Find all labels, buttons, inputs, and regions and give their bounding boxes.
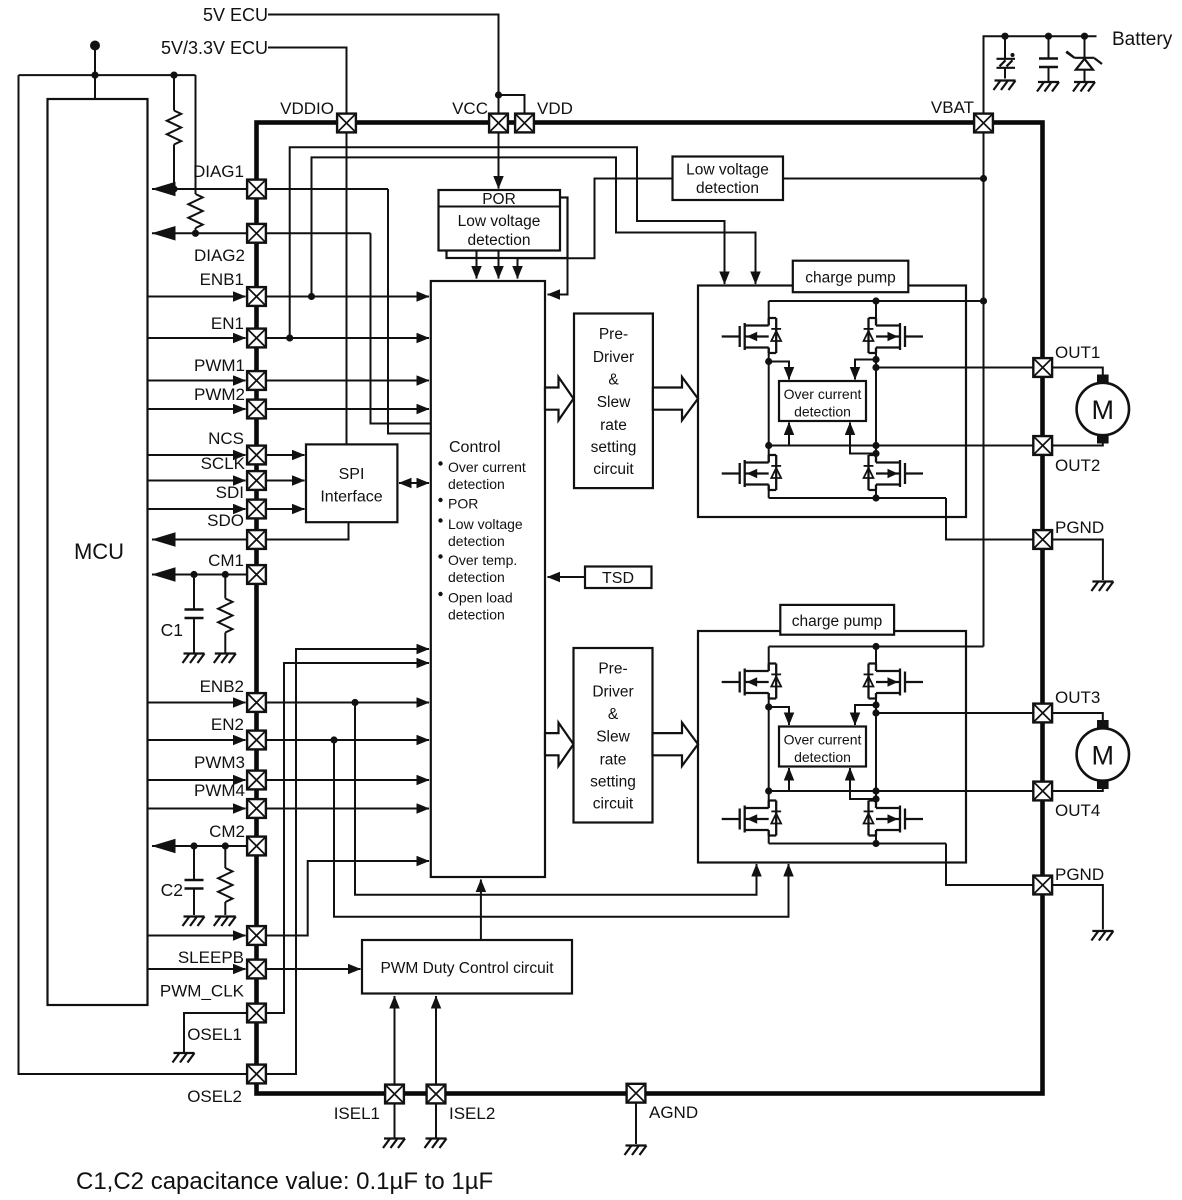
wire POR to control arrow 2 [498, 251, 500, 279]
transistor Q1 (bridge1 high-left) [722, 318, 781, 353]
motor M1 [1097, 375, 1109, 384]
block over current detection 2 [779, 727, 866, 767]
pin PWM3 [247, 771, 266, 790]
bridge 2 top rail [769, 646, 984, 648]
wire bridge1 right column [875, 348, 877, 463]
ground PGND1 [1091, 582, 1113, 592]
svg-text:detection: detection [448, 533, 505, 549]
capacitor battery ceramic [1048, 36, 1050, 58]
wire 5V/3.3V ECU to VDDIO [268, 48, 347, 114]
svg-text:EN2: EN2 [211, 715, 244, 734]
pin ENB1 [247, 287, 266, 306]
svg-text:&: & [608, 706, 619, 723]
wire AGND to ground [635, 1104, 637, 1145]
ground AGND [625, 1146, 647, 1156]
svg-text:rate: rate [600, 752, 627, 769]
svg-text:ENB2: ENB2 [200, 677, 244, 696]
transistor Q3 (bridge1 low-left) [722, 455, 781, 490]
wire OCD1 sense bottom-left [769, 423, 789, 446]
svg-text:detection: detection [794, 749, 851, 765]
svg-text:VDDIO: VDDIO [280, 99, 334, 118]
svg-text:M: M [1092, 741, 1115, 771]
wire PWM1 row [149, 380, 246, 382]
svg-text:Over temp.: Over temp. [448, 552, 517, 568]
wire OSEL1 to ground [184, 1013, 247, 1052]
svg-text:OSEL1: OSEL1 [187, 1025, 242, 1044]
wire PWM4 row [149, 808, 246, 810]
svg-text:PWM Duty Control circuit: PWM Duty Control circuit [380, 960, 554, 977]
pin AGND [627, 1084, 646, 1103]
capacitor C1 [193, 575, 195, 610]
pin NCS [247, 446, 266, 465]
svg-text:Slew: Slew [597, 394, 631, 411]
wire ISEL2 to ground [435, 1104, 437, 1138]
svg-text:Over current: Over current [784, 732, 862, 748]
svg-text:OSEL2: OSEL2 [187, 1087, 242, 1106]
transistor Q7 (bridge2 low-left) [722, 801, 781, 836]
transistor Q4 (bridge1 low-right) [864, 455, 923, 490]
svg-text:PWM_CLK: PWM_CLK [160, 982, 245, 1001]
diode zener battery [1084, 36, 1086, 58]
pin VDDIO [337, 114, 356, 133]
svg-text:detection: detection [468, 232, 531, 249]
wire POR to control arrow 1 [476, 251, 478, 279]
svg-text:C2: C2 [161, 880, 183, 900]
pin PWM_CLK [247, 960, 266, 979]
svg-text:VBAT: VBAT [931, 98, 974, 117]
block pre-driver 2 [574, 648, 653, 823]
ground R3 [214, 654, 236, 664]
ground C2 [183, 917, 205, 927]
wire SDI row to SPI [149, 508, 246, 510]
svg-text:ISEL2: ISEL2 [449, 1104, 495, 1123]
wire OSEL1 up to control [265, 663, 429, 1013]
junction rail-MCU [91, 72, 98, 79]
wire OCD2 sense bottom-right [850, 768, 876, 799]
wire OUT4 to motor2 [1052, 789, 1103, 792]
bridge2 bottom rail [769, 832, 946, 844]
svg-text:Over current: Over current [784, 386, 862, 402]
svg-text:detection: detection [794, 404, 851, 420]
resistor R1 (DIAG1 pull-up) [173, 75, 175, 110]
pin OUT3 [1033, 704, 1052, 723]
pin CM1 [247, 565, 266, 584]
wire SCLK row to SPI [149, 480, 246, 482]
block arrow control to pre-driver 2 [545, 723, 574, 766]
pin OSEL2 [247, 1065, 266, 1084]
block PWM duty control circuit [362, 940, 572, 994]
wire ENB2 down-over to bridge2 [355, 703, 757, 895]
wire EN2 down-over to bridge2 [334, 740, 789, 917]
svg-text:ENB1: ENB1 [200, 270, 244, 289]
wire OCD2 sense top-right [855, 705, 876, 725]
block SPI interface [306, 444, 397, 522]
wire PWM2 row [149, 408, 246, 410]
svg-text:Low voltage: Low voltage [458, 213, 541, 230]
wire CM2 row to MCU [152, 845, 265, 847]
block control [431, 281, 545, 877]
resistor R2 (DIAG2 pull-up) [195, 75, 197, 194]
wire LVD to control arrow 3 [518, 179, 673, 279]
svg-text:detection: detection [448, 476, 505, 492]
pin VBAT [974, 114, 993, 133]
pin OUT1 [1033, 358, 1052, 377]
wire battery rail [984, 36, 1097, 113]
svg-text:Driver: Driver [593, 349, 634, 366]
svg-text:5V ECU: 5V ECU [203, 5, 268, 25]
pin DIAG2 [247, 224, 266, 243]
junction R2-DIAG2 [192, 230, 199, 237]
svg-text:detection: detection [448, 569, 505, 585]
svg-text:setting: setting [591, 439, 637, 456]
transistor Q2 (bridge1 high-right) [864, 318, 923, 353]
svg-text:Pre-: Pre- [599, 326, 628, 343]
wire outer left pull-up to OSEL2 [19, 75, 248, 1074]
svg-text:Over current: Over current [448, 459, 526, 475]
block arrow pre-driver 2 to bridge 2 [653, 723, 699, 766]
bridge 2 box [698, 631, 966, 863]
svg-text:SLEEPB: SLEEPB [178, 948, 244, 967]
svg-text:Open load: Open load [448, 590, 513, 606]
svg-text:POR: POR [448, 496, 478, 512]
transistor Q8 (bridge2 low-right) [864, 801, 923, 836]
ground OSEL1 [173, 1053, 195, 1063]
wire ENB1 row [149, 296, 246, 298]
pin PWM4 [247, 799, 266, 818]
MCU box [48, 99, 148, 1005]
pin PGND 1 [1033, 530, 1052, 549]
block low voltage detection (VBAT) [673, 157, 784, 201]
wire OUT3 from bridge2 [876, 712, 1034, 714]
wire OUT2 from bridge1 [769, 445, 1034, 447]
wire drain stubs bridge 1 [769, 301, 876, 326]
wire CM1 row to MCU [152, 574, 265, 576]
svg-text:Pre-: Pre- [598, 661, 627, 678]
POR shadow box [447, 198, 568, 259]
svg-text:VDD: VDD [537, 99, 573, 118]
svg-text:EN1: EN1 [211, 314, 244, 333]
motor M2 [1097, 720, 1109, 729]
wire OUT2 to motor1 [1052, 443, 1103, 446]
wire bridge1 to PGND [946, 498, 1033, 540]
wire PGND2 to ground [1052, 885, 1103, 930]
wire POR wrap to control [548, 258, 568, 295]
block charge pump 1 [793, 261, 909, 293]
svg-text:AGND: AGND [649, 1103, 698, 1122]
pin EN1 [247, 329, 266, 348]
block arrow control to pre-driver 1 [545, 377, 574, 420]
wire LVD to VBAT line [783, 178, 984, 180]
svg-text:C1,C2 capacitance value: 0.1µF: C1,C2 capacitance value: 0.1µF to 1µF [76, 1168, 493, 1195]
svg-text:circuit: circuit [593, 796, 634, 813]
wire TSD to control [548, 576, 586, 578]
wire drain stubs bridge 2 [769, 647, 876, 672]
wire OUT1 from bridge1 [876, 367, 1034, 369]
svg-text:Interface: Interface [320, 489, 382, 506]
wire NCS row to SPI [149, 454, 246, 456]
svg-text:MCU: MCU [74, 539, 124, 564]
pin VDD [515, 114, 534, 133]
wire OCD2 sense bottom-left [769, 768, 789, 791]
wire bridge2 to PGND [946, 844, 1033, 886]
svg-text:SCLK: SCLK [201, 454, 246, 473]
junction R1-DIAG1 [170, 185, 177, 192]
pin ENB2 [247, 693, 266, 712]
pin DIAG1 [247, 180, 266, 199]
pin SDO [247, 530, 266, 549]
junction VCC-VDD branch [495, 91, 502, 98]
svg-text:PWM3: PWM3 [194, 753, 245, 772]
svg-text:OUT4: OUT4 [1055, 801, 1100, 820]
pin CM2 [247, 837, 266, 856]
svg-text:OUT2: OUT2 [1055, 456, 1100, 475]
svg-text:SPI: SPI [339, 466, 365, 483]
svg-text:Driver: Driver [592, 684, 633, 701]
svg-text:detection: detection [448, 607, 505, 623]
svg-text:OUT3: OUT3 [1055, 688, 1100, 707]
capacitor battery electrolytic [1004, 36, 1006, 58]
svg-text:SDO: SDO [207, 511, 244, 530]
svg-text:Slew: Slew [596, 729, 630, 746]
pin OUT4 [1033, 782, 1052, 801]
pin OUT2 [1033, 436, 1052, 455]
wire supply terminal down to MCU [94, 46, 96, 100]
wire VBAT feed down [983, 133, 985, 647]
svg-text:SDI: SDI [216, 483, 244, 502]
wire SDO from SPI to MCU [152, 522, 349, 539]
wire PWM3 row [149, 779, 246, 781]
wire OUT4 from bridge2 [769, 790, 1034, 792]
wire OCD2 sense top-left [769, 707, 789, 725]
wire ISEL2 up to PWM duty [435, 996, 437, 1085]
wire OCD1 sense top-left [769, 362, 789, 380]
pin SCLK [247, 471, 266, 490]
svg-text:Low voltage: Low voltage [448, 516, 523, 532]
svg-text:DIAG2: DIAG2 [194, 246, 245, 265]
svg-text:C1: C1 [161, 620, 183, 640]
wire EN1 row [149, 337, 246, 339]
svg-text:PGND: PGND [1055, 865, 1104, 884]
wire OCD1 sense bottom-right [850, 423, 876, 454]
svg-text:M: M [1092, 395, 1115, 425]
svg-text:PWM1: PWM1 [194, 356, 245, 375]
svg-text:circuit: circuit [593, 461, 634, 478]
resistor R4 (CM2) [224, 846, 226, 868]
pin SLEEPB [247, 926, 266, 945]
wire PGND1 to ground [1052, 540, 1103, 581]
svg-text:ISEL1: ISEL1 [334, 1104, 380, 1123]
bridge 1 top rail [769, 300, 984, 302]
wire 5V/3.3V rail [19, 74, 196, 76]
wire ENB1 up-over to bridge1 [312, 157, 756, 296]
pin EN2 [247, 731, 266, 750]
ground zener [1073, 82, 1095, 92]
svg-text:charge pump: charge pump [805, 270, 895, 287]
svg-text:CM1: CM1 [208, 551, 244, 570]
svg-text:TSD: TSD [602, 570, 634, 587]
pin PWM1 [247, 371, 266, 390]
block TSD [585, 567, 652, 589]
svg-text:PWM2: PWM2 [194, 385, 245, 404]
capacitor C2 [193, 846, 195, 880]
svg-text:detection: detection [696, 180, 759, 197]
wire bridge2 left column [768, 693, 770, 808]
pin SDI [247, 500, 266, 519]
pin PWM2 [247, 400, 266, 419]
wire OCD1 sense top-right [855, 360, 876, 380]
block charge pump 2 [780, 605, 894, 635]
wire ISEL1 up to PWM duty [394, 996, 396, 1085]
bridge 1 box [698, 286, 966, 518]
ground battery cap 1 [994, 81, 1016, 91]
wire ENB2 row [149, 702, 246, 704]
wire EN1 up-over to bridge1 [290, 147, 725, 338]
wire EN2 row [149, 739, 246, 741]
svg-text:setting: setting [590, 774, 636, 791]
wire DIAG1 to MCU and to control [152, 188, 388, 190]
wire DIAG2 to MCU and to control [152, 232, 371, 234]
ground C1 [183, 654, 205, 664]
svg-text:Low voltage: Low voltage [686, 162, 769, 179]
pin ISEL1 [385, 1085, 404, 1104]
svg-text:VCC: VCC [452, 99, 488, 118]
junction rail-R1 [170, 72, 177, 79]
wire OUT3 to motor2 [1052, 713, 1103, 720]
wire bridge2 right column [875, 693, 877, 808]
wire OSEL2 up to control [265, 649, 429, 1074]
block arrow pre-driver 1 to bridge 1 [653, 377, 698, 420]
wire PWM duty to control [480, 880, 482, 941]
svg-text:OUT1: OUT1 [1055, 343, 1100, 362]
wire VCC branch to VDD [499, 95, 525, 113]
pin ISEL2 [427, 1085, 446, 1104]
ground PGND2 [1091, 931, 1113, 941]
svg-text:PWM4: PWM4 [194, 781, 245, 800]
svg-text:rate: rate [600, 417, 627, 434]
wire VDDIO down to SPI [346, 133, 348, 445]
svg-text:Control: Control [449, 439, 501, 456]
svg-text:DIAG1: DIAG1 [193, 162, 244, 181]
wire bridge1 left column [768, 348, 770, 463]
wire OUT1 to motor1 [1052, 368, 1103, 375]
wire ISEL1 to ground [394, 1104, 396, 1138]
svg-text:PGND: PGND [1055, 518, 1104, 537]
transistor Q6 (bridge2 high-right) [864, 664, 923, 699]
block POR / low voltage detection [439, 190, 561, 251]
bridge1 bottom rail [769, 487, 946, 499]
ground R4 [214, 917, 236, 927]
pin PGND 2 [1033, 876, 1052, 895]
svg-text:NCS: NCS [208, 429, 244, 448]
wire SPI-control bidirectional [399, 482, 429, 484]
transistor Q5 (bridge2 high-left) [722, 664, 781, 699]
block pre-driver 1 [574, 314, 653, 489]
wire PWM_CLK row to PWM duty [149, 968, 246, 970]
wire 5V ECU to VCC [268, 15, 499, 114]
ground ISEL2 [425, 1139, 447, 1149]
pin OSEL1 [247, 1004, 266, 1023]
svg-text:5V/3.3V ECU: 5V/3.3V ECU [161, 38, 268, 58]
ground battery cap 2 [1037, 82, 1059, 92]
wire SLEEPB row up to control [149, 935, 246, 937]
IC boundary box [257, 123, 1043, 1094]
svg-text:Battery: Battery [1112, 29, 1173, 50]
pin VCC [489, 114, 508, 133]
node 5V/3.3V supply terminal [90, 41, 100, 51]
ground ISEL1 [383, 1139, 405, 1149]
svg-text:CM2: CM2 [209, 822, 245, 841]
svg-text:POR: POR [482, 191, 516, 208]
wire VCC down to POR [498, 133, 500, 189]
resistor R3 (CM1) [224, 575, 226, 599]
svg-text:&: & [608, 372, 619, 389]
svg-text:charge pump: charge pump [792, 613, 882, 630]
